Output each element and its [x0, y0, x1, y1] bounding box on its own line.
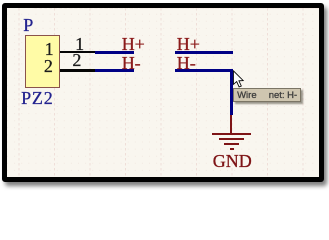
wire H+ right [175, 51, 233, 54]
pin 2 number [72, 51, 81, 69]
net label H+ right [177, 35, 200, 53]
power port GND stem [230, 115, 233, 134]
GND bar 4 [230, 148, 234, 150]
tooltip Wire net: H- [233, 88, 301, 103]
net label H- right [177, 54, 196, 72]
GND bar 2 [219, 138, 244, 140]
net label H+ left [122, 35, 145, 53]
wire H- left [95, 69, 134, 72]
wire H- right vertical drop to ground [230, 69, 233, 115]
designator P [23, 16, 33, 34]
wire H+ left [95, 51, 134, 54]
GND bar 3 [224, 143, 239, 145]
pin display name 1 [45, 40, 54, 58]
mouse cursor [233, 70, 246, 90]
screenshot frame [2, 3, 324, 182]
pin 2 [60, 69, 95, 72]
power port text GND [213, 152, 252, 170]
GND bar 1 [212, 133, 250, 135]
pin 1 number [75, 35, 84, 53]
pin display name 2 [44, 57, 53, 75]
net label H- left [122, 54, 141, 72]
wire H- right horizontal [175, 69, 233, 72]
part comment PZ2 [21, 89, 53, 107]
connector part body PZ2 [25, 35, 60, 89]
pin 1 [60, 51, 95, 54]
